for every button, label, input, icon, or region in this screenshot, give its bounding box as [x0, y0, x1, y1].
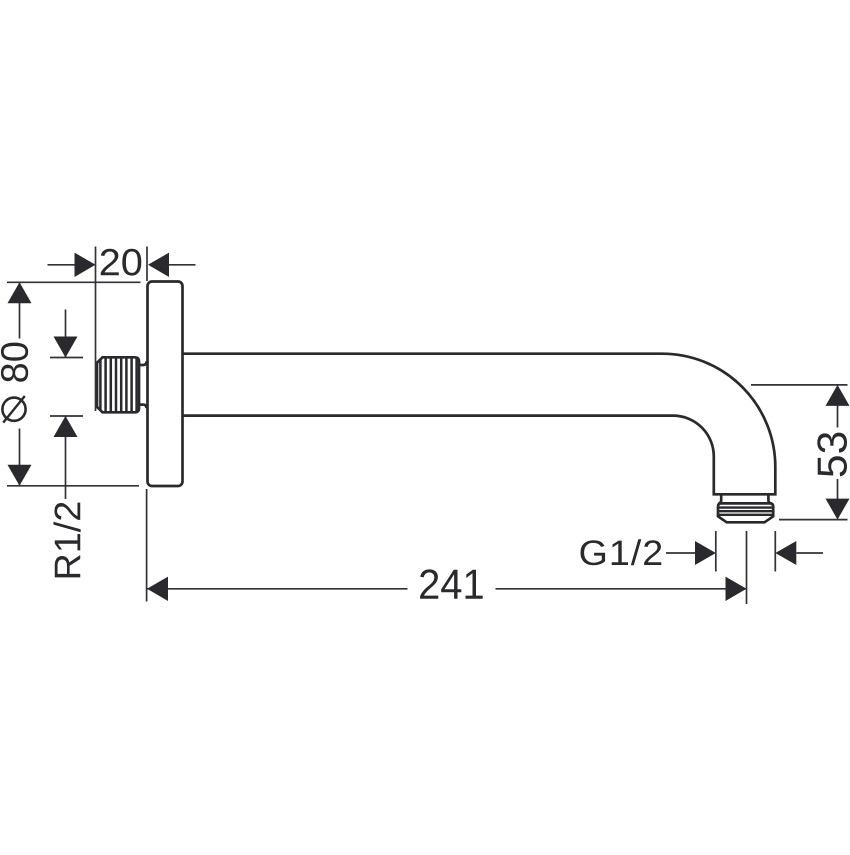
connector neck: [139, 362, 147, 409]
R1/2 upper pointer tail: [65, 310, 67, 358]
R1/2 upper tick: [50, 357, 83, 359]
G1/2 right extension line: [774, 531, 776, 572]
outlet neck: [718, 494, 771, 503]
arrow 53 bottom: [826, 499, 850, 520]
text G1/2: [581, 539, 662, 565]
text R1/2: [53, 503, 80, 578]
53 top extension line: [751, 384, 848, 386]
text 241: [420, 569, 483, 598]
arrow 241 right: [726, 577, 747, 601]
extension line flange-left, above flange: [146, 247, 148, 282]
outlet thread G1/2: [718, 503, 773, 522]
extension line flange-left, below flange (241 dim): [146, 489, 148, 602]
20 dim line left tail: [48, 264, 76, 266]
outlet thread lines: [718, 508, 773, 515]
wall flange: [148, 282, 183, 487]
arrow 53 top: [826, 385, 850, 406]
diameter symbol of Ø80: [2, 396, 25, 423]
text 53: [817, 433, 847, 477]
241 dim line: [147, 588, 747, 590]
arrow R1/2 up: [54, 416, 78, 437]
arrow 20 right: [148, 253, 169, 277]
20 dim line right tail: [168, 264, 196, 266]
G1/2 right tail: [797, 552, 824, 554]
flange top extension to Ø80: [7, 281, 141, 283]
connector knurl stripes: [100, 357, 136, 412]
arrow G1/2: [695, 541, 716, 565]
Ø80 dim vertical line: [19, 282, 21, 486]
arrow Ø80 top: [8, 282, 32, 303]
arrow G1/2 right: [775, 541, 796, 565]
241 right extension line: [746, 531, 748, 604]
shower arm tube with elbow: [183, 354, 775, 495]
G1/2 leader tail: [666, 552, 695, 554]
flange bottom extension to Ø80: [7, 485, 139, 487]
R1/2 lower tick: [50, 415, 83, 417]
extension line left of 20 dim: [95, 247, 97, 412]
text 20: [101, 249, 142, 276]
53 bottom extension line: [779, 519, 848, 521]
wall-side threaded connector body: [97, 357, 139, 412]
arrow Ø80 bottom: [8, 465, 32, 486]
R1/2 lower pointer tail: [65, 416, 67, 499]
arrow R1/2 down: [54, 337, 78, 358]
text 80: [1, 343, 28, 382]
arrow 20 left: [75, 253, 96, 277]
G1/2 left extension line: [715, 531, 717, 572]
arrow 241 left: [147, 577, 168, 601]
53 dim vertical line: [837, 405, 839, 500]
